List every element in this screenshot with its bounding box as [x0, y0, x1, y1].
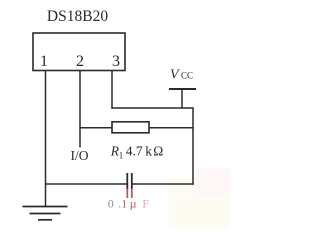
svg-text:1: 1	[119, 150, 124, 160]
wire pin1 to ground	[45, 71, 47, 207]
Vcc power symbol	[169, 89, 196, 108]
capacitor C1 plates	[127, 173, 132, 198]
svg-text:4.7: 4.7	[126, 143, 143, 158]
svg-text:V: V	[170, 67, 180, 82]
wire bottom right segment from capacitor to rail	[132, 183, 194, 185]
wire right rail	[192, 108, 194, 185]
svg-text:µ: µ	[130, 196, 137, 210]
wire resistor right lead to right rail	[149, 127, 194, 129]
wire pin2 node to resistor left lead	[79, 127, 112, 129]
svg-text:1: 1	[121, 196, 127, 210]
svg-text:1: 1	[40, 53, 48, 70]
svg-text:I/O: I/O	[71, 148, 89, 163]
svg-text:F: F	[142, 196, 149, 210]
svg-text:3: 3	[112, 53, 120, 70]
wire top horizontal pin3 to right rail	[111, 107, 193, 109]
wire pin2 to I/O node	[79, 71, 81, 148]
value label 0.1 uF (faded)	[108, 196, 149, 210]
svg-text:DS18B20: DS18B20	[47, 8, 108, 25]
value label R1 4.7 kOhm	[110, 143, 164, 160]
ground	[23, 207, 68, 220]
svg-text:2: 2	[76, 53, 84, 70]
svg-text:0: 0	[108, 196, 114, 210]
svg-text:Ω: Ω	[153, 143, 163, 158]
faint stain bottom-right	[168, 168, 230, 228]
IC U1 DS18B20 body box	[33, 33, 125, 71]
resistor R1 body	[112, 122, 149, 133]
svg-text:k: k	[145, 143, 152, 158]
wire pin3 down	[111, 71, 113, 109]
svg-text:CC: CC	[181, 71, 193, 81]
wire bottom left segment to capacitor	[45, 183, 127, 185]
